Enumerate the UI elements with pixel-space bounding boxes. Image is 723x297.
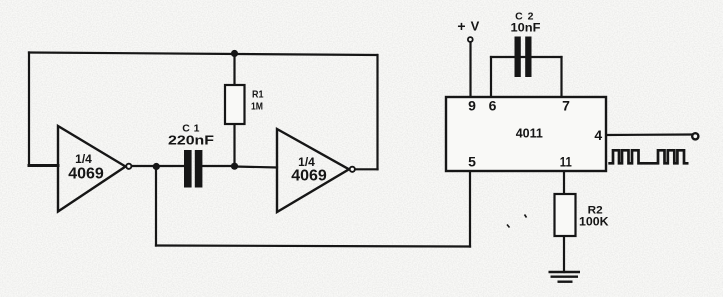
svg-text:4069: 4069 bbox=[291, 168, 327, 185]
wire bottom horizontal to pin 5 bbox=[156, 246, 470, 247]
svg-text:11: 11 bbox=[560, 153, 572, 169]
wire node A down bbox=[155, 166, 157, 246]
svg-text:6: 6 bbox=[489, 98, 497, 114]
wire pin 7 vertical bbox=[560, 57, 562, 97]
node top junction dot bbox=[231, 50, 238, 57]
svg-text:220nF: 220nF bbox=[168, 133, 214, 148]
IC U2 4011 body bbox=[446, 97, 606, 171]
capacitor C1 bbox=[168, 123, 214, 188]
wire node A to C1 bbox=[156, 165, 184, 167]
svg-text:1/4: 1/4 bbox=[75, 152, 92, 166]
wire U1b output to right vertical bbox=[355, 168, 378, 170]
resistor R1 1M bbox=[225, 85, 264, 124]
svg-text:9: 9 bbox=[468, 98, 476, 114]
square wave symbol bbox=[608, 150, 688, 163]
wire feedback left vertical bbox=[28, 53, 30, 166]
resistor R2 100K bbox=[555, 194, 609, 236]
capacitor C2 10nF bbox=[511, 11, 541, 78]
svg-text:+: + bbox=[457, 18, 465, 34]
stray mark apostrophe bbox=[525, 215, 527, 218]
wire pin 6 vertical bbox=[490, 57, 492, 97]
svg-text:4069: 4069 bbox=[68, 166, 104, 183]
wire pin 11 to R2 bbox=[563, 171, 565, 194]
svg-text:4011: 4011 bbox=[516, 127, 543, 141]
svg-text:V: V bbox=[471, 19, 480, 34]
node A junction dot bbox=[153, 163, 160, 170]
wire U1a output to node A bbox=[132, 165, 157, 167]
svg-text:C: C bbox=[515, 11, 523, 23]
output terminal pin 4 bbox=[692, 133, 698, 139]
wire R1 bottom lead bbox=[233, 124, 235, 166]
ground bbox=[549, 272, 581, 282]
wire feedback top horizontal bbox=[29, 53, 377, 56]
wire R1 top lead bbox=[233, 54, 235, 85]
svg-text:7: 7 bbox=[562, 98, 570, 114]
node B junction dot bbox=[231, 163, 238, 170]
svg-text:R1: R1 bbox=[252, 90, 264, 101]
wire pin 4 output bbox=[606, 133, 692, 136]
wire +V to pin 9 bbox=[469, 44, 471, 98]
svg-text:5: 5 bbox=[468, 153, 476, 169]
svg-text:100K: 100K bbox=[579, 215, 609, 229]
+V supply terminal bbox=[457, 18, 479, 42]
wire C2 top horizontal bbox=[491, 56, 562, 58]
op-amp U1b inverter 1/4 4069 bbox=[277, 129, 355, 212]
wire pin 5 vertical bbox=[469, 171, 471, 247]
wire R2 to ground bbox=[563, 236, 565, 272]
stray mark comma bbox=[507, 225, 510, 228]
wire U1a input stub bbox=[29, 164, 58, 167]
op-amp U1a inverter 1/4 4069 bbox=[58, 126, 131, 212]
wire node B to U1b input bbox=[235, 167, 278, 168]
wire C1 to node B bbox=[202, 165, 235, 167]
wire feedback right vertical bbox=[376, 55, 378, 169]
svg-text:2: 2 bbox=[528, 11, 534, 23]
svg-text:1M: 1M bbox=[251, 101, 263, 112]
svg-text:10nF: 10nF bbox=[511, 23, 541, 35]
svg-text:4: 4 bbox=[594, 127, 602, 143]
